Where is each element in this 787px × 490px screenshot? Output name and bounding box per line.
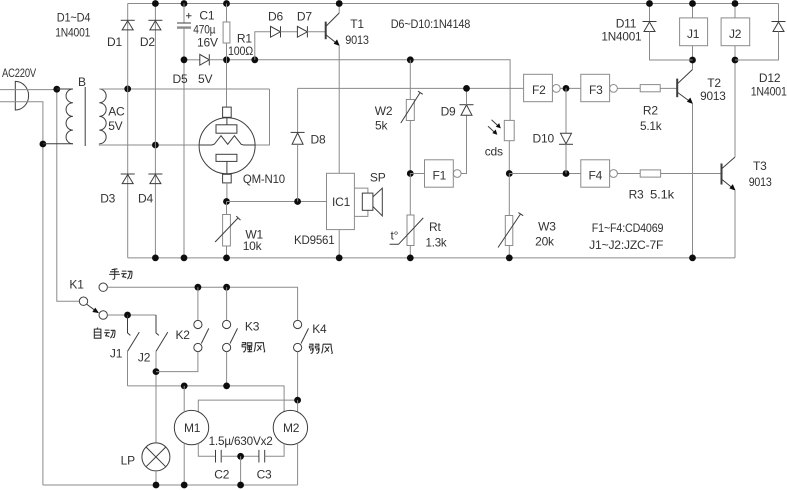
sensor QM-N10 (199, 60, 255, 202)
transformer B (43, 87, 106, 146)
inverter F1 (410, 160, 461, 187)
wire T3 emitter to ground rail (734, 190, 736, 258)
relay coil J2 (721, 4, 750, 61)
label ruofeng (weak wind) (309, 344, 332, 353)
node D2 D4 junction (152, 142, 159, 149)
wire D8 cathode to F2 input (298, 87, 524, 89)
svg-text:9013: 9013 (700, 89, 726, 103)
svg-text:D2: D2 (140, 35, 155, 49)
wire D2 branch (154, 4, 156, 146)
node C2 C3 midpoint (237, 453, 244, 460)
switch K2 (156, 287, 209, 371)
label shoudong (manual) (109, 269, 132, 280)
resistor R3 (640, 170, 721, 177)
svg-text:5V: 5V (198, 72, 212, 86)
switch K1 selector (79, 283, 107, 319)
transistor T2 9013 (677, 70, 693, 105)
wire C2 to C3 (221, 455, 259, 457)
svg-text:16V: 16V (197, 35, 218, 49)
svg-text:W3: W3 (538, 220, 556, 234)
svg-text:J1: J1 (110, 347, 123, 361)
svg-text:AC: AC (108, 104, 125, 118)
svg-text:F1~F4:CD4069: F1~F4:CD4069 (592, 221, 664, 235)
svg-text:D11: D11 (616, 16, 637, 30)
svg-text:5V: 5V (108, 119, 122, 133)
svg-text:cds: cds (485, 145, 503, 159)
diode D11 (643, 4, 693, 61)
node rail LP (153, 482, 160, 489)
wire D7 to T1 base (307, 31, 325, 33)
svg-text:D1~D4: D1~D4 (57, 11, 91, 25)
node sensor W1 junction (223, 198, 230, 205)
node line A K3 (223, 383, 230, 390)
node live-transformer junction (53, 86, 60, 93)
wire D6 to D7 (281, 31, 298, 33)
node A W2 Rt F1 (407, 170, 414, 177)
wire weak line B (198, 400, 297, 412)
svg-text:M2: M2 (283, 421, 300, 435)
diode D3 (121, 174, 135, 184)
diode D1 (121, 20, 135, 30)
svg-text:D10: D10 (533, 132, 555, 146)
wire 5V rail left (184, 59, 200, 61)
node J2 K2 junction (153, 368, 160, 375)
wire C1 to ground (183, 28, 185, 258)
svg-text:1N4001: 1N4001 (751, 84, 787, 98)
node 5V W2 (407, 56, 414, 63)
node ground D4 (152, 255, 159, 262)
node top rail D2 (152, 0, 159, 7)
switch K3 (223, 287, 238, 386)
node ground W3 (506, 255, 513, 262)
node manual K3 (223, 284, 230, 291)
svg-text:100Ω: 100Ω (228, 44, 253, 58)
svg-text:D7: D7 (297, 10, 312, 24)
svg-text:T3: T3 (753, 159, 767, 173)
transistor T1 9013 (326, 13, 340, 46)
wire top rail (128, 3, 779, 5)
potentiometer W2 (401, 60, 423, 174)
photoresistor cds (488, 120, 514, 174)
wire ground rail (128, 257, 735, 259)
wire T1 emitter to IC1 (338, 45, 340, 173)
svg-text:D5: D5 (173, 72, 188, 86)
node J1 coil bottom (689, 57, 696, 64)
wire bottom rail (43, 484, 298, 486)
svg-text:W2: W2 (375, 104, 393, 118)
svg-text:AC220V: AC220V (2, 66, 36, 80)
svg-text:1.5µ/630Vx2: 1.5µ/630Vx2 (209, 434, 274, 448)
node J2 coil bottom (732, 57, 739, 64)
node rail C2C3 (237, 482, 244, 489)
svg-text:C2: C2 (214, 468, 229, 482)
relay contact J1 (128, 315, 140, 386)
svg-text:J1: J1 (687, 27, 700, 41)
thermistor Rt 1.3k (390, 174, 424, 258)
node auto J1 (124, 312, 131, 319)
node 5V D5 anode (181, 56, 188, 63)
node J2 rail (732, 0, 739, 7)
node J1 rail (689, 0, 696, 7)
svg-text:D4: D4 (138, 192, 153, 206)
node ground W1 (223, 255, 230, 262)
wire strong line A (128, 386, 285, 412)
diode D9 (460, 88, 474, 173)
capacitor C2 (216, 450, 222, 463)
svg-text:IC1: IC1 (332, 195, 351, 209)
node top rail C1 (181, 0, 188, 7)
potentiometer W1 (215, 202, 240, 258)
wire T3 collector to J2 (734, 60, 736, 157)
wire D3 branch (127, 89, 129, 258)
svg-text:1N4001: 1N4001 (601, 29, 642, 43)
relay contact J2 (156, 315, 168, 443)
svg-text:Rt: Rt (429, 220, 441, 234)
wire plug live lead (0, 89, 57, 91)
node D8 anode (294, 198, 301, 205)
svg-text:J2: J2 (138, 351, 151, 365)
svg-text:J1~J2:JZC-7F: J1~J2:JZC-7F (589, 238, 663, 252)
transistor T3 9013 (722, 157, 736, 191)
diode D4 (148, 174, 162, 184)
svg-text:10k: 10k (243, 239, 263, 253)
wire D1 branch (127, 4, 129, 89)
wire 5V rail right (209, 60, 510, 121)
svg-text:T1: T1 (350, 17, 364, 31)
svg-text:C3: C3 (257, 468, 272, 482)
resistor R1 (223, 4, 230, 60)
wire secondary bottom / heater run (99, 144, 199, 145)
svg-text:F2: F2 (532, 83, 546, 97)
svg-text:D3: D3 (100, 192, 115, 206)
wire auto bus (107, 314, 156, 316)
wire capacitor row (198, 444, 215, 457)
wire M2 right top lead (297, 400, 299, 412)
svg-text:QM-N10: QM-N10 (243, 172, 285, 186)
label zidong (auto) (94, 328, 115, 339)
node D10 F4 junction (563, 170, 570, 177)
svg-text:D6: D6 (268, 10, 283, 24)
node 5V R1 (223, 56, 230, 63)
diode D6 (271, 26, 281, 37)
svg-text:5.1k: 5.1k (650, 188, 675, 202)
label qiangfeng (strong wind) (242, 343, 265, 352)
node line B K4 M2 (294, 397, 301, 404)
diode D7 (297, 26, 307, 37)
svg-text:D1: D1 (107, 35, 122, 49)
motor M1 (174, 386, 208, 485)
node line A M1 (181, 383, 188, 390)
node cds W3 junction (506, 170, 513, 177)
node rail M1 (181, 482, 188, 489)
wire F3 out to R2 (617, 87, 640, 89)
svg-text:20k: 20k (535, 235, 555, 249)
svg-text:K1: K1 (69, 278, 84, 292)
wire manual bus (107, 287, 297, 320)
svg-text:K2: K2 (176, 328, 191, 342)
svg-text:KD9561: KD9561 (294, 233, 335, 247)
wire plug neutral lead (0, 102, 43, 485)
svg-text:R3: R3 (629, 188, 644, 202)
diode D12 (735, 4, 786, 61)
wire sensor to IC1 input (227, 201, 327, 203)
potentiometer W3 (498, 174, 523, 258)
svg-text:D6~D10:1N4148: D6~D10:1N4148 (391, 17, 471, 31)
node top rail R1 (223, 0, 230, 7)
wire secondary top (99, 88, 269, 90)
wire D6 branch riser (255, 32, 271, 60)
svg-text:B: B (78, 75, 86, 89)
node F2 out D10 (563, 85, 570, 92)
svg-text:K3: K3 (245, 320, 260, 334)
wire F2 out to F3 in (560, 87, 581, 89)
svg-text:K4: K4 (312, 322, 327, 336)
IC1 KD9561 (327, 173, 355, 229)
node D1 D3 junction (124, 86, 131, 93)
svg-text:C1: C1 (199, 9, 214, 23)
svg-text:F1: F1 (433, 169, 447, 183)
wire heater right loop (255, 89, 270, 145)
switch K4 (294, 320, 309, 400)
node ground T2 emitter (689, 255, 696, 262)
svg-text:F4: F4 (589, 169, 603, 183)
svg-text:R2: R2 (643, 104, 658, 118)
svg-text:SP: SP (370, 171, 386, 185)
wire live drop to K1 (57, 90, 80, 302)
speaker SP (354, 188, 382, 216)
node neutral-primary junction (40, 141, 47, 148)
svg-text:t°: t° (391, 229, 399, 243)
wire D4 branch (154, 145, 156, 258)
svg-text:9013: 9013 (749, 175, 772, 189)
svg-text:J2: J2 (729, 27, 742, 41)
AC plug (15, 81, 28, 110)
node ground C1 (181, 255, 188, 262)
node ground IC1 (336, 255, 343, 262)
svg-text:D12: D12 (759, 71, 781, 85)
wire node B to F4 (509, 173, 581, 175)
svg-text:5k: 5k (375, 119, 388, 133)
node ground Rt (407, 255, 414, 262)
svg-text:1N4001: 1N4001 (55, 26, 90, 40)
motor M2 (273, 410, 307, 485)
wire T2 collector to J1 (692, 60, 694, 70)
svg-text:1.3k: 1.3k (426, 235, 448, 249)
svg-text:F3: F3 (589, 83, 603, 97)
wire T2 emitter to ground (692, 103, 694, 258)
node D11 rail (646, 0, 653, 7)
relay coil J1 (680, 4, 708, 61)
wire midpoint to rail (240, 456, 242, 485)
node manual K2 (195, 284, 202, 291)
diode D8 (291, 88, 305, 201)
diode D5 (200, 54, 210, 65)
node 5V D6 branch (251, 56, 258, 63)
wire C3 to M2 (265, 444, 284, 457)
node T1 collector rail (336, 0, 343, 7)
svg-text:D8: D8 (311, 133, 326, 147)
inverter F4 (581, 160, 618, 187)
inverter F2 (524, 74, 561, 101)
svg-text:LP: LP (121, 454, 135, 468)
wire F4 out to R3 (617, 173, 640, 175)
svg-text:9013: 9013 (345, 33, 369, 47)
capacitor C3 (259, 450, 265, 463)
diode D10 (559, 88, 573, 173)
resistor R2 (640, 85, 677, 92)
svg-text:D9: D9 (441, 105, 456, 119)
svg-text:5.1k: 5.1k (640, 119, 663, 133)
svg-text:M1: M1 (184, 421, 201, 435)
lamp LP (142, 443, 170, 485)
diode D2 (148, 20, 162, 30)
capacitor C1 (177, 4, 192, 28)
wire IC1 to ground (338, 230, 340, 258)
node D9 to F2 line (463, 85, 470, 92)
wire T1 collector (338, 4, 340, 14)
inverter F3 (581, 74, 618, 101)
svg-text:T2: T2 (707, 76, 721, 90)
